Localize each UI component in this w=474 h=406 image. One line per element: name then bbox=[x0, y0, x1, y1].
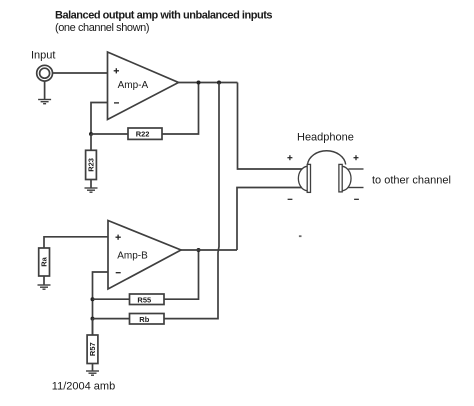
wire Amp-A output down to Rb (with crossover jog) bbox=[164, 83, 219, 319]
node Amp-A output to Rb bbox=[217, 81, 221, 85]
svg-text:Headphone: Headphone bbox=[297, 132, 354, 144]
headphone left minus label bbox=[288, 198, 293, 200]
wire R55 right to Amp-B output bbox=[164, 250, 199, 299]
node Amp-B output junction bbox=[197, 248, 201, 252]
svg-text:(one channel shown): (one channel shown) bbox=[55, 22, 150, 34]
headphone right driver bar bbox=[339, 164, 342, 192]
wire Rb left bbox=[93, 318, 130, 320]
wire node to R57 bbox=[92, 319, 94, 335]
wire jack to Amp-A noninverting input bbox=[53, 72, 108, 74]
wire R57 to ground bbox=[92, 364, 94, 371]
ground (R23) bbox=[85, 188, 98, 192]
resistor R55 bbox=[130, 294, 165, 305]
node Amp-A feedback junction bbox=[89, 132, 93, 136]
wire R22 right to Amp-A output bbox=[162, 83, 199, 135]
ground (input jack) bbox=[38, 100, 51, 104]
svg-text:Rb: Rb bbox=[139, 315, 149, 324]
wire R23 to ground bbox=[90, 180, 92, 188]
svg-text:to other channel: to other channel bbox=[372, 174, 451, 186]
headphone left driver bar bbox=[307, 164, 310, 192]
wire Amp-A output bbox=[179, 82, 238, 84]
wire jack to ground bbox=[44, 81, 46, 99]
resistor R22 bbox=[128, 128, 162, 139]
svg-text:R23: R23 bbox=[87, 158, 96, 172]
node Amp-B inverting to Rb bbox=[91, 317, 95, 321]
op-amp Amp-B bbox=[108, 221, 181, 290]
wire Amp-A output to headphone plus bbox=[238, 83, 303, 170]
wire right driver stub minus bbox=[348, 187, 364, 189]
op-amp Amp-A bbox=[108, 52, 179, 120]
ground (R57) bbox=[86, 371, 99, 375]
svg-text:Amp-B: Amp-B bbox=[117, 251, 148, 262]
svg-text:R55: R55 bbox=[137, 295, 151, 304]
svg-text:11/2004 amb: 11/2004 amb bbox=[52, 380, 115, 392]
Amp-B plus input symbol bbox=[116, 235, 121, 240]
Amp-A minus input symbol bbox=[114, 102, 119, 104]
node Amp-B inverting to R55 bbox=[91, 297, 95, 301]
headphone left plus label bbox=[287, 155, 292, 160]
stray dot bbox=[299, 235, 302, 237]
input jack bbox=[37, 65, 53, 81]
resistor Ra bbox=[39, 248, 50, 276]
Amp-B minus input symbol bbox=[116, 272, 121, 274]
wire node to R22 left bbox=[91, 133, 128, 135]
svg-text:Ra: Ra bbox=[40, 256, 49, 266]
headphone left driver dome bbox=[298, 166, 307, 191]
wire node to R23 bbox=[90, 134, 92, 150]
resistor Rb bbox=[130, 314, 165, 325]
wire Amp-B output to headphone minus bbox=[237, 188, 302, 251]
Amp-A plus input symbol bbox=[114, 68, 119, 73]
wire Amp-B inverting input bbox=[93, 272, 109, 335]
headphone right minus label bbox=[354, 198, 359, 200]
wire Amp-A inverting input bbox=[91, 103, 108, 135]
svg-text:Amp-A: Amp-A bbox=[118, 80, 149, 91]
resistor R57 bbox=[87, 335, 98, 364]
wire Amp-B output bbox=[181, 249, 237, 251]
ground (Ra) bbox=[38, 285, 51, 289]
svg-text:Input: Input bbox=[31, 50, 55, 62]
svg-text:R57: R57 bbox=[88, 342, 97, 356]
wire R55 left bbox=[93, 298, 130, 300]
svg-text:R22: R22 bbox=[136, 130, 150, 139]
node Amp-A output to R22 bbox=[197, 81, 201, 85]
wire right driver stub plus bbox=[348, 168, 363, 170]
headphone right plus label bbox=[354, 155, 359, 160]
headphone right driver dome bbox=[342, 166, 351, 191]
svg-text:Balanced output amp with unbal: Balanced output amp with unbalanced inpu… bbox=[55, 10, 273, 22]
headphone headband bbox=[308, 151, 346, 165]
resistor R23 bbox=[86, 150, 97, 179]
wire Ra to ground bbox=[43, 276, 45, 285]
wire Ra to Amp-B noninverting input bbox=[44, 237, 108, 248]
